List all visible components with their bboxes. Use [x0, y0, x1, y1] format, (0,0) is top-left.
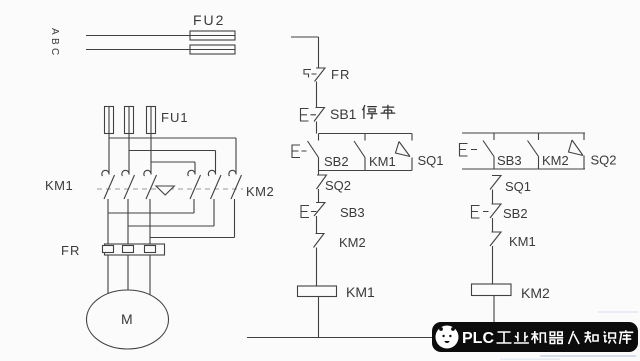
svg-text:SB3: SB3 — [497, 153, 522, 168]
svg-text:B: B — [49, 38, 60, 45]
svg-text:KM2: KM2 — [521, 285, 550, 301]
svg-text:KM1: KM1 — [509, 234, 536, 249]
svg-text:KM2: KM2 — [246, 184, 274, 199]
svg-text:KM2: KM2 — [542, 153, 569, 168]
svg-text:FU2: FU2 — [193, 12, 225, 28]
svg-text:FR: FR — [61, 243, 80, 258]
svg-text:SQ1: SQ1 — [505, 179, 531, 194]
svg-text:PLC: PLC — [462, 330, 494, 347]
svg-text:SQ1: SQ1 — [418, 153, 444, 168]
svg-text:SB3: SB3 — [340, 205, 365, 220]
svg-text:SB1: SB1 — [330, 106, 357, 122]
svg-text:KM1: KM1 — [45, 178, 73, 193]
svg-text:C: C — [49, 48, 60, 55]
svg-text:KM1: KM1 — [346, 284, 375, 300]
svg-text:SB2: SB2 — [503, 206, 528, 221]
svg-text:A: A — [49, 28, 60, 35]
svg-text:KM2: KM2 — [339, 235, 366, 250]
svg-text:M: M — [121, 311, 133, 327]
svg-text:SQ2: SQ2 — [591, 153, 617, 168]
svg-text:SB2: SB2 — [324, 154, 349, 169]
svg-text:SQ2: SQ2 — [325, 178, 351, 193]
svg-text:KM1: KM1 — [369, 154, 396, 169]
svg-text:FU1: FU1 — [161, 110, 189, 125]
svg-text:FR: FR — [331, 67, 350, 82]
